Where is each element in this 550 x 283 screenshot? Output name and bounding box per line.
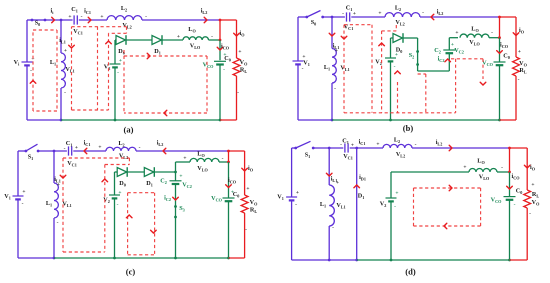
inductor L1 in (d) [328,148,330,185]
svg-text:-: - [342,11,344,17]
capacitor C0 in (a) [214,60,226,62]
loop 4 arrows in (a) [147,53,150,59]
wire: (a) red link to load branch [220,19,237,21]
dashed output loop in (b) [451,58,483,60]
loop 2 arrow in (b) [379,43,385,46]
wire: (a) bottom rail green part [61,119,220,121]
svg-text:+: + [22,189,25,195]
wire: (a) L0 to junction [209,39,221,41]
svg-text:-: - [117,202,119,208]
wire: (d) switch to node A and C1 [313,147,343,149]
loop arrows in (d) [449,185,452,191]
wire: (b) L0 to junction [489,37,500,39]
resistor RL in (b) [513,57,520,76]
capacitor C1 in (a) [73,15,75,24]
svg-text:-: - [145,14,147,20]
dashed mesh loop 4 in (a) [123,50,125,113]
wire: (a) top wire L2 to output node [142,19,220,21]
svg-text:-: - [394,204,396,210]
diode branch D1 in (d) [356,148,358,260]
capacitor C1 in (c) [68,146,70,155]
svg-text:-: - [64,146,66,152]
load branch in (d): current arrow i_O [526,148,528,190]
current arrow i_L2 in (d) [449,145,452,151]
svg-text:-: - [415,142,417,148]
svg-text:-: - [422,10,424,16]
svg-text:+: + [100,14,103,20]
svg-text:-: - [334,86,336,92]
svg-text:+: + [378,11,381,17]
dashed mesh loop in (d) [414,187,481,189]
current arrow i_C1 (reverse) in (c) [84,148,87,154]
inductor L1 in (c) [53,151,55,183]
node: (b) top-right junction [498,16,501,19]
source V2 in (a) [114,40,116,64]
capacitor C0 in (b) [494,61,506,63]
wire: (d) V2 up to L0 line [390,172,392,198]
source V2 in (d) [386,197,397,199]
wire: (a) top wire C1 to L2 [79,19,107,21]
diode D1 in (a) [152,36,162,45]
switch S0 (open) in (b) [305,16,308,19]
svg-text:-: - [222,156,224,162]
wire: (b) input top wire [298,16,307,18]
wire: (d) red bottom return [510,259,528,261]
resistor RL in (a) [233,58,240,76]
svg-text:+: + [75,145,78,151]
wire: (c) D1 to C2 node and up to L0 [155,171,176,173]
wire: (c) switch to node A and C1 [38,150,67,152]
inductor L2 in (a) [107,16,142,20]
source V1 in (b) [297,17,299,61]
inductor L0 in (c) [190,158,219,162]
dashed mesh loop 2 in (b) [381,31,383,113]
current arrow i_C1 in (a) [88,17,91,23]
svg-text:+: + [302,54,305,60]
svg-text:+: + [98,145,101,151]
wire: (d) red link to load [510,147,528,149]
svg-text:-: - [237,90,239,96]
wire: (b) C1 to L2 [351,16,385,18]
svg-text:-: - [501,165,503,171]
switch S3 (closed) in (c) [174,205,177,208]
wire: (b) red bottom return [500,119,517,121]
dashed mesh loop 1 in (b) [344,24,372,26]
wire: (b) bottom rail blue part [298,119,332,121]
node: (a) top-right junction [219,19,222,22]
capacitor C1 in (d) [344,143,346,152]
svg-text:+: + [455,30,458,36]
inductor L2 in (c) [106,147,136,151]
load branch in (a): current arrow i_O [236,20,238,58]
svg-text:(a): (a) [124,125,134,135]
svg-text:+: + [376,142,379,148]
wire: (c) red drop to L0 node [228,151,230,162]
svg-text:-: - [211,34,213,40]
svg-text:-: - [117,70,119,76]
switch S0 (closed) in (a) [32,19,45,21]
capacitor C2 in (b) [443,49,455,51]
current arrow i_C2 in (b) [445,59,451,62]
loop 3 arrow in (a) [106,41,112,44]
current arrow i_D1 in (d) [354,185,360,188]
svg-text:+: + [223,52,226,58]
svg-text:+: + [335,48,338,54]
wire: (b) red drop to L0 node [499,17,501,38]
wire: (a) D1 to L0 [163,39,184,41]
svg-text:-: - [332,225,334,231]
wire: (d) bottom rail green part [357,259,510,261]
svg-text:+: + [177,34,180,40]
wire: (c) bottom rail blue part [18,257,54,259]
svg-text:-: - [394,64,396,70]
wire: (d) L0 to junction [497,171,510,173]
source V2 in (c) [114,172,116,195]
svg-text:+: + [183,156,186,162]
svg-text:+: + [118,190,121,196]
svg-text:-: - [81,14,83,20]
current arrow i_L2 (reverse) in (b) [431,14,434,20]
svg-text:-: - [223,67,225,73]
dashed mesh loop 3 in (a) [126,27,128,34]
wire: (a) red bottom return [220,119,237,121]
wire: (a) D0 to D1 [127,39,153,41]
svg-text:-: - [30,68,32,74]
svg-text:+: + [68,14,71,20]
current arrow i_L2 in (a) [204,17,207,23]
svg-text:+: + [246,186,249,192]
loop 2 arrows in (c) [126,215,132,218]
svg-text:+: + [353,11,356,17]
wire: (d) L2 to output node [412,147,510,149]
dashed mesh loop 2 in (c) [128,192,155,194]
svg-text:+: + [119,58,122,64]
dashed mesh loop 1 in (a) [33,29,57,31]
diode D1 in (c) [144,168,154,177]
dashed D0 hook in (c) [128,158,130,165]
current arrow i_i in (a) [52,17,55,23]
svg-text:-: - [139,145,141,151]
wire: (d) input top wire [292,147,296,149]
wire: (b) bottom rail green part [332,119,500,121]
svg-text:-: - [340,142,342,148]
resistor RL in (d) [524,190,531,208]
inductor L0 in (a) [183,37,209,40]
switch S2 (closed) in (b) [416,50,419,53]
resistor RL in (c) [241,195,248,213]
svg-text:+: + [57,182,60,188]
node: (c) top-right junction [227,150,230,153]
svg-text:-: - [245,227,247,233]
source V2 in (b) [390,38,392,58]
dashed segment near S2 in (b) [418,73,426,75]
wire: (b) D0 to switch S2 [404,37,418,39]
source V1 in (c) [17,151,19,196]
inductor L1 in (a) [60,20,62,53]
svg-text:+: + [238,49,241,55]
dashed segment with arrow right of V2 in (b) [397,82,399,113]
wire: (a) bottom rail blue part [27,119,61,121]
dashed mesh loop 2 in (a) [72,26,127,28]
svg-text:-: - [302,66,304,72]
wire: (c) L2 to output node [136,150,229,152]
svg-text:(c): (c) [126,267,136,277]
loop 2 arrow in (a) [69,45,75,48]
wire: (b) C2 up to L0 line [448,38,450,50]
wire: (c) C1 to L2 [73,150,106,152]
wire: (c) red link to load [229,150,245,152]
inductor L1 in (b) [331,17,333,49]
wire: (c) input top wire [18,150,26,152]
svg-text:-: - [514,202,516,208]
svg-text:+: + [336,180,339,186]
dashed bottom run in (b) [344,112,456,114]
source Vi in (a) [26,20,28,62]
wire: (c) L0 to junction [219,161,229,163]
inductor L2 in (d) [383,144,412,148]
svg-text:-: - [295,202,297,208]
inductor L0 in (d) [469,169,497,172]
svg-text:+: + [64,48,67,54]
svg-text:-: - [57,220,59,226]
wire: (b) L2 to output node [420,16,500,18]
capacitor C0 in (c) [223,197,235,199]
wire: (b) red link to load [500,16,517,18]
svg-text:-: - [64,90,66,96]
diode D0 in (b) [391,37,394,39]
wire: (c) bottom rail green part [54,257,229,259]
svg-text:-: - [518,77,520,83]
current arrow i_CO in (d) [509,172,511,197]
svg-text:-: - [529,211,531,217]
svg-text:+: + [463,165,466,171]
wire: (a) red drop to L0/C0 node [219,20,221,40]
source V1 in (d) [291,148,293,197]
loop 1 arrow in (a) [30,81,36,84]
wire: (b) switch to node A and C1 [323,16,345,18]
wire: (a) top wire switch to node A [45,19,73,21]
svg-text:-: - [491,30,493,36]
current arrow i_C2 in (c) [175,184,177,207]
inductor L2 in (b) [385,13,420,17]
current arrow i_CO in (a) [219,40,221,60]
load branch in (b): current arrow i_O [515,17,517,57]
capacitor C0 in (d) [504,196,516,198]
svg-text:(b): (b) [403,123,414,133]
current arrow i_CO in (c) [228,162,230,198]
current arrow i_L2 (reverse) in (c) [163,148,166,154]
svg-text:+: + [179,174,182,180]
svg-text:+: + [518,49,521,55]
wire: (d) red drop to L0 node [509,148,511,172]
wire: (c) D0 to D1 [128,171,145,173]
loop 1 arrows in (c) [60,175,66,178]
load branch in (c): current arrow i_O [244,151,246,195]
wire: (c) red bottom return [229,257,245,259]
switch S1 (open) in (c) [25,150,28,153]
dashed mesh loop 1 in (c) [63,157,129,159]
loop 1 arrow in (b) [341,36,347,39]
svg-text:+: + [451,42,454,48]
node: (d) top-right junction [508,147,511,150]
current arrow i_CO in (b) [499,38,501,62]
diode D0 in (c) [115,171,118,173]
wire: (d) C1 to L2 [350,147,383,149]
capacitor C2 in (c) [175,172,177,181]
output loop arrow in (b) [480,82,486,85]
svg-text:+: + [395,191,398,197]
svg-text:+: + [231,190,234,196]
switch S1 (open) in (d) [294,147,297,150]
wire: (c) S3 to bottom rail [175,217,177,258]
svg-text:-: - [22,201,24,207]
wire: (d) bottom rail blue part [292,259,357,261]
wire: (a) input top wire from source to switch [27,19,32,21]
diode D0 in (a) [115,39,116,41]
svg-text:+: + [531,182,534,188]
svg-text:+: + [296,190,299,196]
wire: (b) S2 down and over to C2 [417,65,419,72]
svg-text:(d): (d) [405,267,416,277]
capacitor C1 in (b) [346,12,348,21]
inductor L0 in (b) [460,34,489,38]
